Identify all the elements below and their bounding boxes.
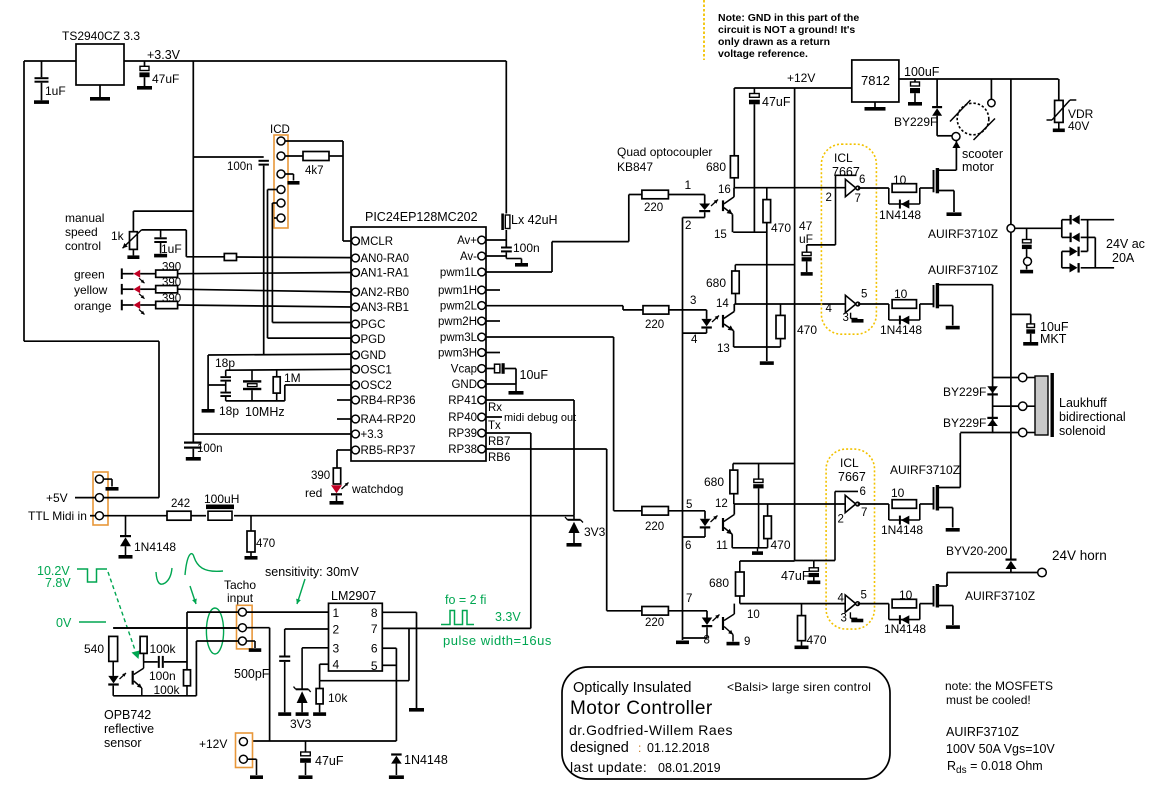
svg-text:1k: 1k [111, 229, 125, 243]
svg-text:5: 5 [861, 590, 867, 602]
svg-text:RP41: RP41 [448, 395, 477, 407]
svg-text:ICD: ICD [270, 124, 290, 136]
svg-text:24V ac: 24V ac [1106, 237, 1145, 251]
svg-text:reflective: reflective [104, 722, 154, 736]
svg-text:500pF: 500pF [234, 667, 270, 681]
svg-text:GND: GND [361, 350, 387, 362]
svg-text:1N4148: 1N4148 [884, 622, 926, 636]
svg-text:RP40: RP40 [448, 412, 477, 424]
svg-text:18p: 18p [219, 404, 239, 418]
svg-text:Lx 42uH: Lx 42uH [511, 213, 558, 227]
svg-text:100uH: 100uH [204, 492, 239, 506]
svg-text:+12V: +12V [787, 71, 815, 85]
svg-text:4k7: 4k7 [305, 165, 324, 177]
svg-text:10: 10 [893, 173, 907, 187]
svg-text:10k: 10k [328, 691, 348, 705]
svg-text:100n: 100n [513, 241, 540, 255]
svg-text:6: 6 [860, 486, 866, 498]
svg-text:220: 220 [645, 319, 664, 331]
svg-text:100n: 100n [227, 161, 253, 173]
svg-text:390: 390 [162, 262, 181, 274]
svg-text:100uF: 100uF [904, 65, 940, 79]
svg-text:10: 10 [747, 609, 760, 621]
svg-text:1uF: 1uF [161, 242, 182, 256]
svg-text:AN0-RA0: AN0-RA0 [361, 253, 410, 265]
svg-text:5: 5 [371, 659, 378, 673]
svg-text:390: 390 [162, 277, 181, 289]
svg-text:9: 9 [744, 636, 750, 648]
svg-text:pwm2H: pwm2H [438, 316, 477, 328]
svg-text:must be cooled!: must be cooled! [946, 693, 1031, 707]
svg-text:orange: orange [74, 299, 112, 313]
svg-text:1N4148: 1N4148 [881, 523, 923, 537]
svg-text:RP38: RP38 [448, 444, 477, 456]
svg-text:7.8V: 7.8V [45, 576, 71, 590]
svg-text:680: 680 [704, 475, 724, 489]
svg-text:pwm1H: pwm1H [438, 285, 477, 297]
svg-text:only drawn as a return: only drawn as a return [718, 36, 830, 48]
svg-text:1: 1 [333, 606, 340, 620]
svg-text:pwm2L: pwm2L [440, 301, 478, 313]
svg-text:1N4148: 1N4148 [880, 323, 922, 337]
svg-text:10: 10 [891, 486, 905, 500]
svg-text:watchdog: watchdog [351, 482, 403, 496]
svg-text:red: red [305, 486, 322, 500]
svg-text:KB847: KB847 [617, 160, 653, 174]
svg-text:ICL: ICL [834, 151, 853, 165]
svg-text:40V: 40V [1068, 119, 1089, 133]
svg-text:10: 10 [894, 287, 908, 301]
svg-text:470: 470 [256, 538, 275, 550]
svg-text:7: 7 [855, 193, 861, 205]
svg-text:Av-: Av- [460, 251, 477, 263]
svg-text:Optically Insulated: Optically Insulated [573, 680, 691, 696]
svg-text:RB6: RB6 [488, 452, 510, 464]
svg-text:pwm3H: pwm3H [438, 348, 477, 360]
svg-text:1N4148: 1N4148 [879, 208, 921, 222]
svg-text:Rx: Rx [488, 402, 502, 414]
svg-text:0V: 0V [56, 616, 72, 630]
svg-text:4: 4 [826, 303, 833, 315]
svg-text:680: 680 [706, 276, 726, 290]
svg-text:fo = 2 fi: fo = 2 fi [445, 593, 486, 607]
svg-text:TTL Midi in: TTL Midi in [28, 509, 87, 523]
svg-text:100n: 100n [149, 669, 176, 683]
svg-text:Laukhuff: Laukhuff [1059, 396, 1107, 410]
svg-text:6: 6 [371, 642, 378, 656]
svg-text:1uF: 1uF [45, 84, 66, 98]
svg-text:Motor Controller: Motor Controller [570, 698, 713, 719]
svg-text:AN1-RA1: AN1-RA1 [361, 268, 410, 280]
svg-text:bidirectional: bidirectional [1059, 410, 1126, 424]
svg-text:Tx: Tx [488, 420, 501, 432]
svg-text:470: 470 [797, 323, 817, 337]
svg-text:motor: motor [962, 160, 994, 174]
svg-text:47uF: 47uF [762, 95, 791, 109]
svg-text:sensor: sensor [104, 736, 142, 750]
svg-text:8: 8 [371, 606, 378, 620]
svg-text:RA4-RP20: RA4-RP20 [361, 414, 416, 426]
svg-text:PIC24EP128MC202: PIC24EP128MC202 [365, 210, 478, 224]
svg-text:designed: designed [570, 740, 629, 756]
svg-text:220: 220 [645, 521, 664, 533]
svg-text:circuit is NOT a ground! It's: circuit is NOT a ground! It's [718, 24, 855, 36]
svg-text:MKT: MKT [1040, 332, 1067, 346]
svg-text:100V 50A Vgs=10V: 100V 50A Vgs=10V [946, 742, 1055, 756]
svg-text:47uF: 47uF [781, 569, 810, 583]
svg-text:AUIRF3710Z: AUIRF3710Z [965, 589, 1035, 603]
svg-text:7: 7 [686, 593, 692, 605]
svg-text:100n: 100n [197, 443, 223, 455]
svg-text:speed: speed [65, 225, 98, 239]
svg-text:390: 390 [311, 470, 330, 482]
svg-text:green: green [74, 268, 105, 282]
svg-text:sensitivity: 30mV: sensitivity: 30mV [265, 565, 359, 579]
svg-text:6: 6 [859, 174, 865, 186]
svg-text:4: 4 [838, 593, 845, 605]
svg-text:+12V: +12V [199, 737, 227, 751]
svg-text:13: 13 [717, 343, 730, 355]
svg-text:Av+: Av+ [457, 235, 477, 247]
svg-text:4: 4 [333, 658, 340, 672]
svg-text:AUIRF3710Z: AUIRF3710Z [890, 463, 960, 477]
svg-text:3: 3 [841, 613, 847, 625]
svg-text:2: 2 [826, 192, 832, 204]
svg-text:GND: GND [451, 379, 477, 391]
svg-text:RB5-RP37: RB5-RP37 [361, 445, 416, 457]
svg-text:pwm1L: pwm1L [440, 267, 478, 279]
svg-text:2: 2 [685, 220, 691, 232]
svg-text:12: 12 [715, 498, 728, 510]
svg-text:AN3-RB1: AN3-RB1 [361, 302, 410, 314]
svg-text:pwm3L: pwm3L [440, 332, 478, 344]
svg-text:100k: 100k [154, 683, 181, 697]
svg-text:3.3V: 3.3V [495, 610, 521, 624]
svg-text:3V3: 3V3 [290, 717, 312, 731]
svg-text:3: 3 [843, 312, 849, 324]
svg-text:manual: manual [65, 211, 104, 225]
svg-text:16: 16 [718, 184, 731, 196]
svg-text:470: 470 [771, 538, 791, 552]
svg-text:14: 14 [716, 298, 729, 310]
svg-text:47: 47 [799, 219, 813, 233]
svg-text:PGC: PGC [361, 319, 386, 331]
svg-text:AN2-RB0: AN2-RB0 [361, 287, 410, 299]
svg-text:Tacho: Tacho [224, 578, 256, 592]
svg-text:+5V: +5V [46, 491, 68, 505]
svg-text:uF: uF [799, 232, 813, 246]
svg-text:5: 5 [686, 499, 692, 511]
svg-text:yellow: yellow [74, 283, 108, 297]
svg-text:1: 1 [685, 178, 692, 192]
svg-text:dr.Godfried-Willem Raes: dr.Godfried-Willem Raes [569, 722, 733, 738]
svg-text:18p: 18p [215, 356, 235, 370]
svg-text:7667: 7667 [838, 470, 866, 484]
svg-text:LM2907: LM2907 [331, 589, 376, 603]
svg-text:Quad optocoupler: Quad optocoupler [617, 145, 712, 159]
svg-text:5: 5 [861, 289, 867, 301]
svg-text:6: 6 [685, 540, 691, 552]
svg-text:540: 540 [84, 642, 104, 656]
svg-text:2: 2 [838, 514, 844, 526]
svg-text:input: input [227, 591, 254, 605]
svg-text:47uF: 47uF [315, 754, 344, 768]
svg-text:midi debug out: midi debug out [504, 412, 576, 424]
svg-text:BY229F: BY229F [894, 115, 937, 129]
svg-text:BYV20-200: BYV20-200 [946, 544, 1008, 558]
svg-text:20A: 20A [1112, 251, 1135, 265]
svg-text::: : [638, 741, 641, 755]
svg-text:242: 242 [171, 498, 190, 510]
svg-text:Vcap: Vcap [451, 364, 477, 376]
svg-text:680: 680 [706, 160, 726, 174]
svg-text:10uF: 10uF [520, 368, 549, 382]
svg-text:3V3: 3V3 [584, 525, 606, 539]
svg-text:01.12.2018: 01.12.2018 [647, 741, 710, 755]
svg-text:OPB742: OPB742 [104, 708, 151, 722]
svg-text:AUIRF3710Z: AUIRF3710Z [928, 263, 998, 277]
svg-text:11: 11 [716, 540, 728, 552]
svg-text:15: 15 [714, 229, 727, 241]
svg-text:10MHz: 10MHz [245, 405, 285, 419]
svg-text:100k: 100k [150, 642, 177, 656]
svg-text:1M: 1M [284, 371, 301, 385]
svg-text:OSC1: OSC1 [361, 365, 392, 377]
svg-text:last update:: last update: [570, 759, 647, 775]
svg-text:scooter: scooter [962, 147, 1003, 161]
svg-text:7: 7 [371, 622, 378, 636]
svg-text:+3.3: +3.3 [361, 429, 384, 441]
svg-text:control: control [65, 239, 101, 253]
svg-text:470: 470 [807, 633, 827, 647]
svg-text:ICL: ICL [840, 456, 859, 470]
svg-text:RP39: RP39 [448, 428, 477, 440]
svg-text:<Balsi> large siren control: <Balsi> large siren control [727, 680, 871, 694]
svg-text:TS2940CZ 3.3: TS2940CZ 3.3 [62, 29, 140, 43]
svg-text:1N4148: 1N4148 [134, 540, 176, 554]
svg-text:AUIRF3710Z: AUIRF3710Z [946, 725, 1019, 739]
svg-text:+3.3V: +3.3V [147, 48, 181, 62]
svg-text:pulse width=16us: pulse width=16us [443, 633, 552, 648]
svg-text:voltage reference.: voltage reference. [718, 48, 808, 60]
svg-text:BY229F: BY229F [943, 416, 986, 430]
svg-text:4: 4 [691, 334, 698, 346]
svg-text:OSC2: OSC2 [361, 380, 392, 392]
svg-text:8: 8 [704, 635, 710, 647]
svg-text:220: 220 [644, 202, 663, 214]
svg-text:24V horn: 24V horn [1052, 548, 1107, 563]
svg-text:7: 7 [861, 507, 867, 519]
svg-text:2: 2 [333, 623, 340, 637]
svg-text:470: 470 [771, 221, 791, 235]
svg-text:3: 3 [333, 641, 340, 655]
svg-text:47uF: 47uF [152, 72, 179, 86]
svg-text:7812: 7812 [861, 73, 890, 88]
svg-text:3: 3 [690, 295, 696, 307]
svg-text:1N4148: 1N4148 [404, 753, 448, 767]
svg-text:note: the MOSFETS: note: the MOSFETS [945, 679, 1053, 693]
svg-text:RB7: RB7 [488, 436, 510, 448]
svg-text:RB4-RP36: RB4-RP36 [361, 395, 416, 407]
svg-text:680: 680 [709, 576, 729, 590]
svg-text:08.01.2019: 08.01.2019 [658, 761, 721, 775]
svg-text:Note: GND in this part of the: Note: GND in this part of the [718, 12, 859, 24]
svg-text:BY229F: BY229F [943, 385, 986, 399]
svg-text:PGD: PGD [361, 334, 386, 346]
svg-text:MCLR: MCLR [361, 236, 394, 248]
svg-text:10: 10 [899, 588, 913, 602]
svg-text:AUIRF3710Z: AUIRF3710Z [928, 227, 998, 241]
svg-text:solenoid: solenoid [1059, 424, 1106, 438]
svg-text:220: 220 [645, 617, 664, 629]
svg-text:390: 390 [162, 293, 181, 305]
